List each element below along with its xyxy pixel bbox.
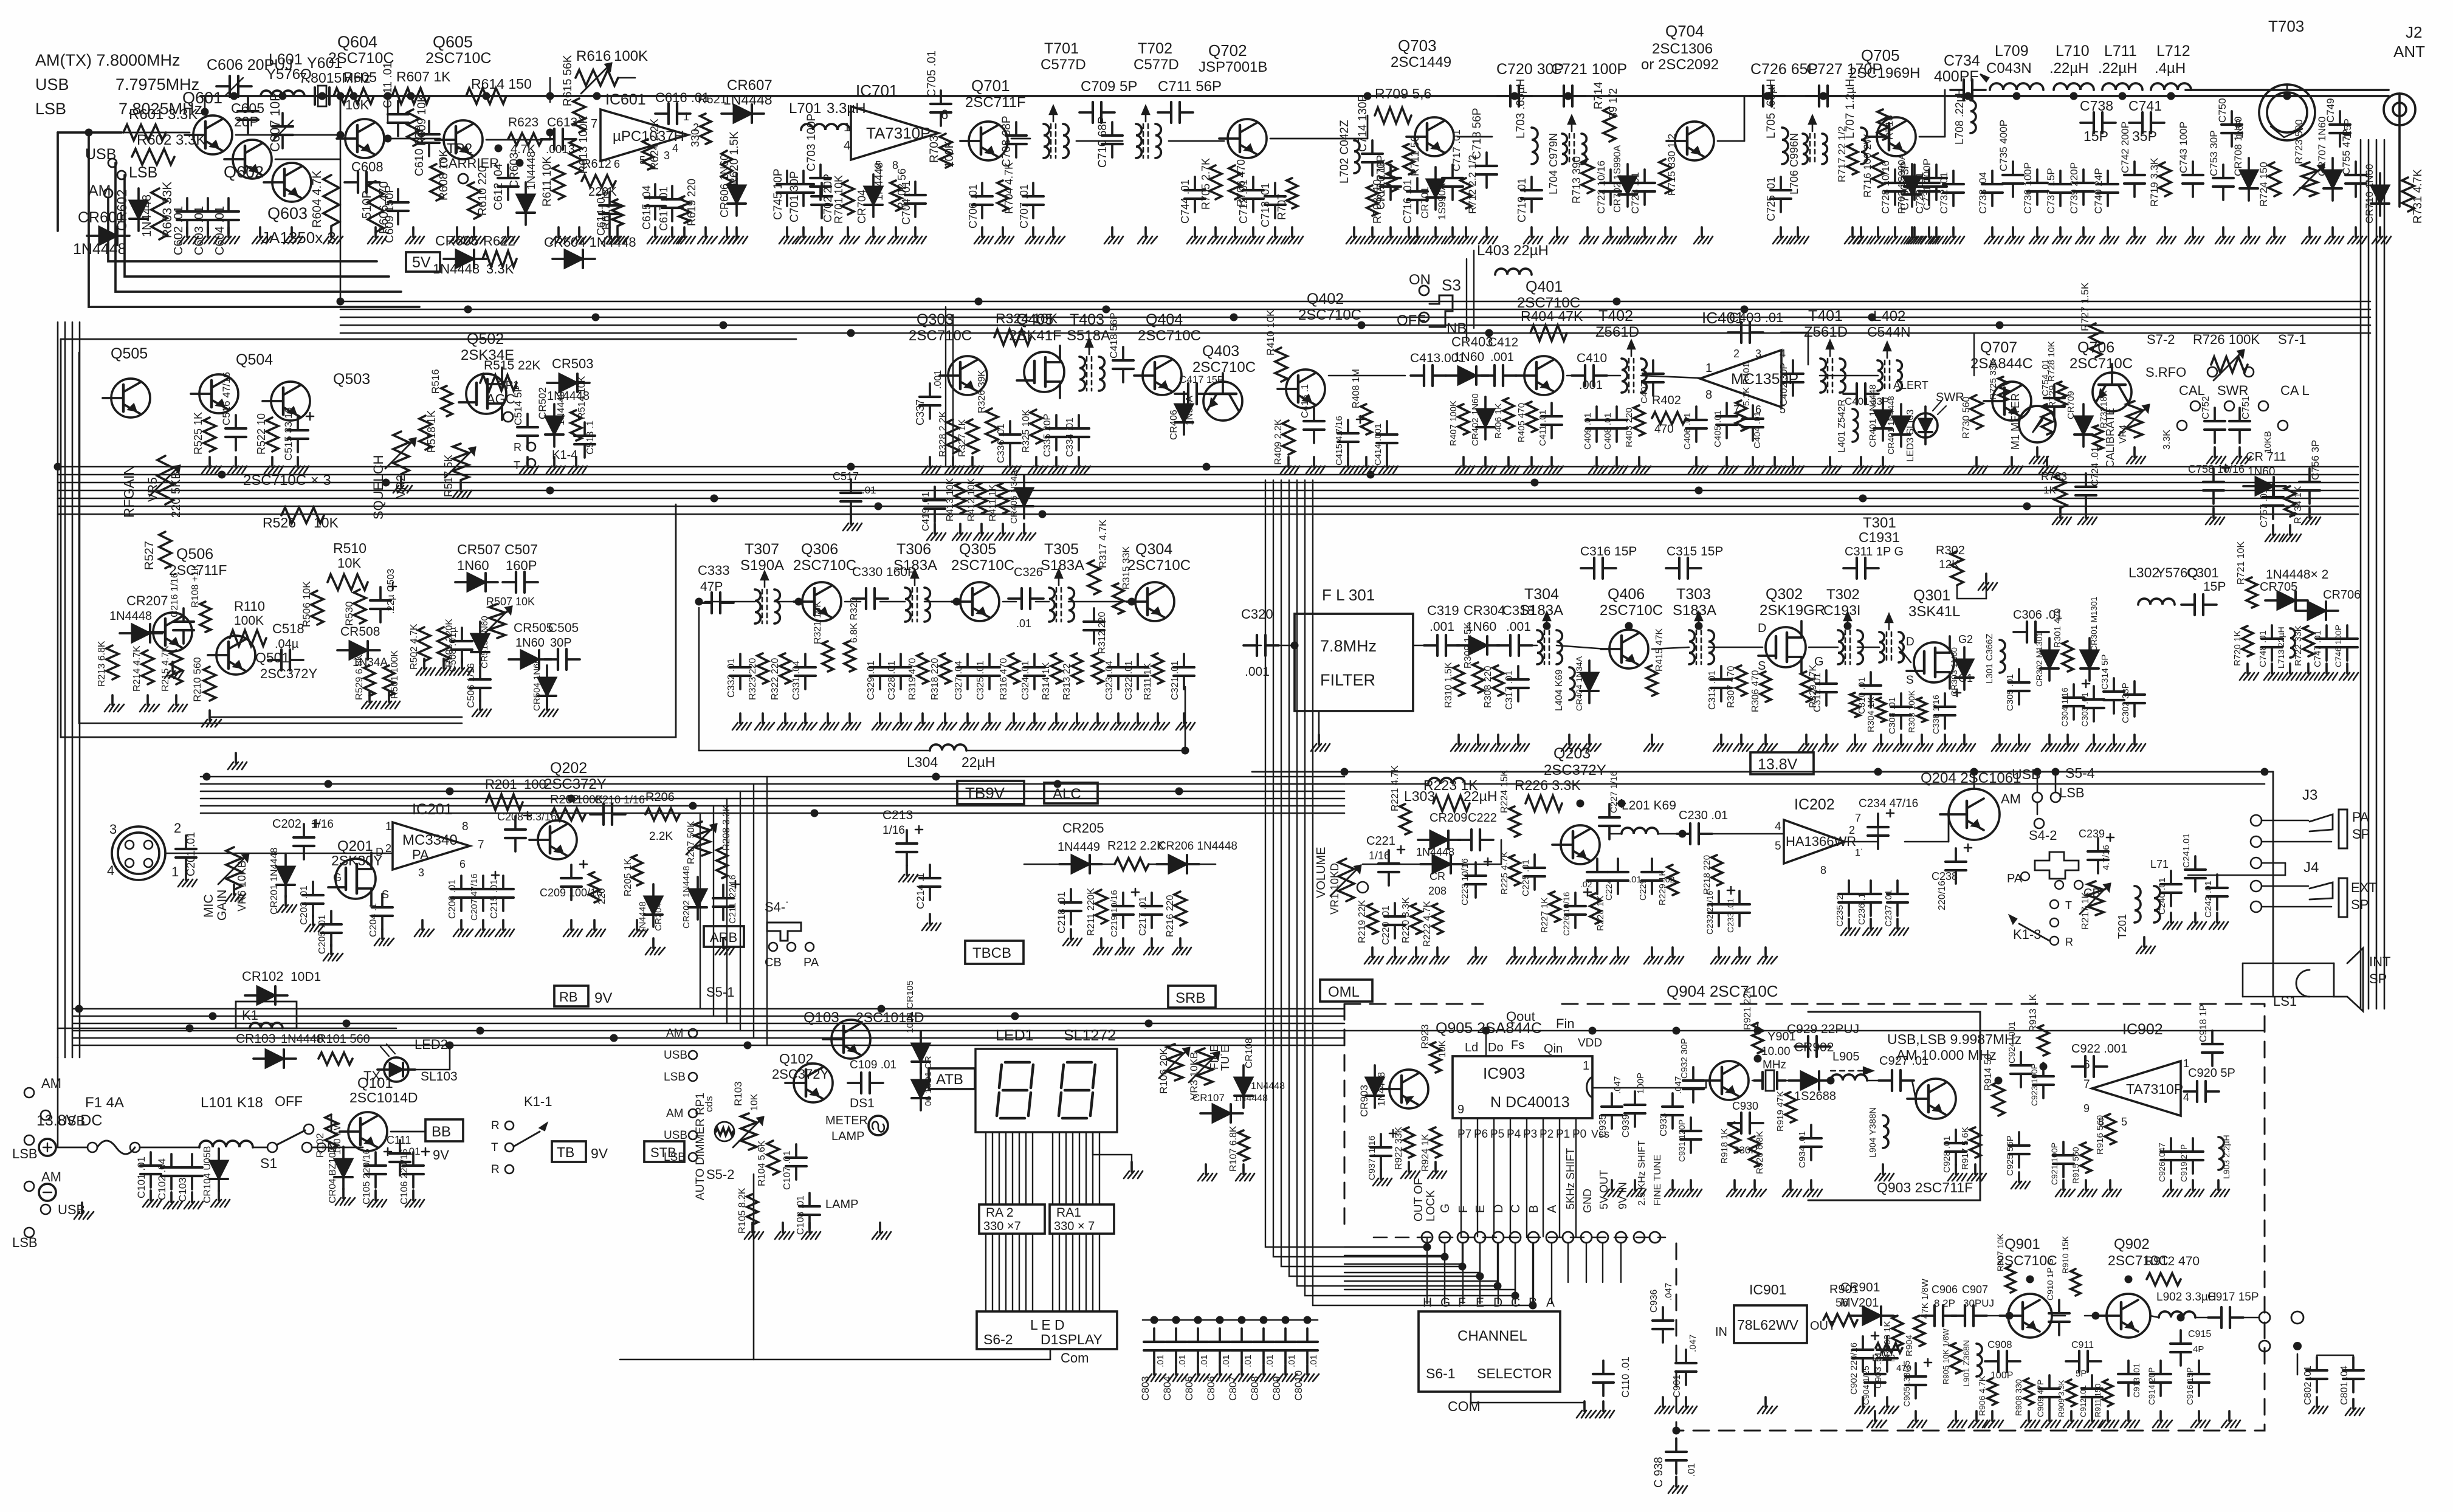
resistor R729: [2042, 404, 2052, 435]
resistor R905: [1950, 1343, 1961, 1373]
wire 13.8 to q204: [1973, 772, 1975, 789]
capacitor C710: [1111, 122, 1113, 136]
opamp IC201: [393, 822, 470, 870]
resistor R108: [200, 602, 211, 632]
capacitor C224: [1617, 859, 1619, 872]
capacitor C322: [1137, 654, 1139, 667]
ground if bank: [739, 713, 741, 723]
svg-text:R918 1K: R918 1K: [1719, 1129, 1730, 1164]
resistor R308: [1493, 665, 1504, 696]
svg-text:CR502: CR502: [537, 387, 548, 419]
resistor R305: [1850, 693, 1860, 717]
svg-text:C304 1/16: C304 1/16: [2060, 687, 2069, 727]
svg-text:Q103: Q103: [803, 1009, 839, 1026]
capacitor C414: [1386, 421, 1388, 435]
svg-text:8 2P: 8 2P: [1934, 1297, 1955, 1309]
capacitor C305: [2018, 669, 2020, 682]
wire selector buses: [1344, 1246, 1427, 1248]
bypass cap row C803-C810: [1143, 1319, 1318, 1321]
transformer T306: [905, 588, 910, 622]
ground meter bank: [2059, 508, 2062, 518]
capacitor C715 270P: [1389, 165, 1392, 178]
capacitor C743: [2192, 162, 2194, 175]
ground pll1 bank: [1380, 1169, 1382, 1179]
capacitor C919: [2192, 1138, 2194, 1152]
diode CR708: [2240, 170, 2258, 188]
transformer T201: [2135, 886, 2141, 923]
svg-text:39 1/2: 39 1/2: [1607, 88, 1619, 119]
inductor L708: [1970, 100, 1976, 133]
svg-text:2SK30Y: 2SK30Y: [331, 853, 382, 868]
pot VR2 squelch: [393, 431, 409, 474]
capacitor C748: [2271, 625, 2273, 639]
capacitor C908: [1985, 1360, 1998, 1363]
resistor R203: [589, 872, 600, 902]
capacitor C801: [2352, 1357, 2355, 1370]
diode CR209: [1430, 831, 1448, 849]
box LED DISPLAY S6-2: [977, 1311, 1117, 1349]
svg-text:R917 5.6K: R917 5.6K: [1960, 1127, 1970, 1170]
svg-text:C906: C906: [1932, 1283, 1958, 1296]
svg-text:9V IN: 9V IN: [1617, 1182, 1629, 1209]
svg-text:CR103: CR103: [236, 1032, 275, 1046]
svg-text:C607 10P: C607 10P: [267, 92, 283, 152]
svg-text:CR707 1N60: CR707 1N60: [2316, 117, 2328, 176]
svg-text:2SC710C: 2SC710C: [1600, 602, 1663, 619]
svg-text:C517: C517: [833, 470, 859, 483]
svg-text:Q102: Q102: [779, 1051, 813, 1067]
diode CR207: [132, 624, 150, 642]
svg-text:C748 .01: C748 .01: [2258, 630, 2268, 667]
resistor R514: [571, 410, 582, 441]
svg-text:C750: C750: [2217, 98, 2228, 123]
inductor L904: [1883, 1115, 1888, 1148]
capacitor C927: [1879, 1079, 1892, 1082]
svg-text:R223 1K: R223 1K: [1423, 777, 1478, 793]
resistor R716: [1872, 153, 1884, 187]
svg-text:1N4448× 2: 1N4448× 2: [2266, 568, 2328, 582]
capacitor C216: [182, 608, 185, 622]
ground nb bank: [1287, 457, 1290, 467]
capacitor C749: [2339, 111, 2341, 125]
resistor R622: [483, 251, 517, 267]
svg-text:Z561D: Z561D: [1595, 324, 1639, 340]
resistor R718: [1877, 109, 1888, 140]
svg-text:R518 1K: R518 1K: [425, 410, 438, 453]
channel selector wires: [1426, 1237, 1428, 1243]
diode CR710: [2371, 185, 2389, 204]
svg-text:C332 .01: C332 .01: [726, 658, 737, 698]
svg-text:DS1: DS1: [850, 1096, 875, 1110]
svg-text:TA7310P: TA7310P: [866, 124, 931, 142]
svg-text:C902 220/16: C902 220/16: [1849, 1342, 1859, 1395]
svg-text:JSP7001B: JSP7001B: [1199, 59, 1267, 75]
svg-text:L706 C996N: L706 C996N: [1788, 133, 1800, 194]
capacitor C929: [1795, 1045, 1808, 1048]
svg-text:R104 5.6K: R104 5.6K: [757, 1140, 767, 1186]
svg-text:C514 5P: C514 5P: [512, 385, 524, 425]
inductor L201: [1622, 828, 1658, 834]
filter FL301: [1295, 614, 1413, 711]
svg-text:C301: C301: [2187, 565, 2219, 580]
svg-text:cds: cds: [703, 1096, 715, 1112]
resistor R515: [480, 375, 517, 391]
svg-text:.0013: .0013: [546, 143, 575, 156]
capacitor C227: [1608, 804, 1611, 817]
diode CR705: [2277, 591, 2296, 610]
svg-text:.01: .01: [1265, 1355, 1275, 1367]
capacitor C729: [1928, 170, 1930, 183]
svg-text:R733: R733: [2041, 470, 2067, 483]
diode CR406: [1175, 404, 1193, 422]
svg-text:CR404 1N34A: CR404 1N34A: [1574, 656, 1584, 711]
svg-text:C325 .01: C325 .01: [975, 661, 986, 700]
svg-text:C518: C518: [272, 621, 304, 636]
svg-text:C311 1P G: C311 1P G: [1845, 545, 1904, 558]
resistor R620: [721, 151, 732, 185]
box TB 9V: [552, 1141, 586, 1162]
svg-text:K1-1: K1-1: [524, 1094, 552, 1109]
svg-text:CR207: CR207: [126, 593, 168, 608]
ground c801: [2316, 1397, 2318, 1407]
svg-text:R218 220: R218 220: [1702, 855, 1712, 895]
svg-text:C712 .01: C712 .01: [1237, 179, 1250, 224]
svg-text:2SC1449: 2SC1449: [1391, 54, 1451, 70]
channel selector pin row: [1374, 1237, 1665, 1239]
svg-text:3: 3: [664, 149, 670, 162]
wire j3 leads: [2262, 820, 2308, 822]
svg-text:Q904 2SC710C: Q904 2SC710C: [1667, 982, 1778, 1000]
pot VR3: [1197, 1048, 1213, 1085]
ground q703 bank: [1274, 227, 1276, 237]
svg-text:R912 470: R912 470: [2144, 1254, 2200, 1268]
svg-text:5KHz SHIFT: 5KHz SHIFT: [1564, 1148, 1577, 1209]
svg-text:2: 2: [1733, 348, 1739, 360]
svg-text:R909 3.3K: R909 3.3K: [2057, 1380, 2066, 1417]
capacitor C726: [1750, 95, 1763, 97]
resistor R913: [2038, 1025, 2049, 1056]
svg-text:S5-4: S5-4: [2065, 765, 2095, 781]
svg-text:C924 .001: C924 .001: [2007, 1022, 2017, 1064]
capacitor C709: [1079, 111, 1093, 114]
capacitor C728: [1894, 170, 1896, 183]
svg-text:10K: 10K: [345, 97, 369, 112]
resistor R526: [281, 507, 324, 523]
resistor R606: [368, 181, 384, 232]
svg-text:2SC710C × 3: 2SC710C × 3: [243, 472, 331, 489]
svg-text:10D1: 10D1: [291, 970, 321, 984]
svg-text:R913 1K: R913 1K: [2028, 994, 2038, 1032]
resistor R711: [1403, 144, 1414, 174]
svg-text:S183A: S183A: [893, 557, 937, 574]
ground q704 bank: [1530, 227, 1533, 237]
svg-text:Do: Do: [1488, 1041, 1504, 1054]
diode CR404: [1580, 673, 1598, 691]
svg-text:T304: T304: [1524, 586, 1559, 603]
transformer T302: [1838, 630, 1843, 664]
ground q404 bank: [934, 524, 936, 534]
svg-text:C411 .01: C411 .01: [1538, 410, 1548, 446]
svg-text:L703 .65µH: L703 .65µH: [1515, 78, 1527, 139]
capacitor C731: [1935, 165, 1938, 178]
svg-text:2.2K: 2.2K: [649, 830, 673, 843]
svg-text:IC201: IC201: [412, 801, 453, 818]
svg-text:C210 1/16: C210 1/16: [594, 794, 645, 806]
svg-text:AM(TX) 7.8000MHz: AM(TX) 7.8000MHz: [35, 51, 181, 69]
svg-text:AM: AM: [666, 1027, 684, 1040]
capacitor C410: [1572, 374, 1585, 377]
capacitor C209: [570, 865, 573, 878]
svg-text:C326: C326: [1014, 566, 1043, 579]
svg-text:C233 .01: C233 .01: [1725, 898, 1735, 933]
svg-text:C320: C320: [1241, 607, 1273, 622]
svg-text:S6-1: S6-1: [1426, 1366, 1456, 1381]
capacitor C405: [1725, 403, 1728, 416]
svg-text:L705 .65µH: L705 .65µH: [1765, 78, 1778, 139]
svg-text:Q707: Q707: [1980, 339, 2017, 356]
fet Q502: [466, 374, 506, 414]
svg-text:R412 10K: R412 10K: [966, 478, 977, 521]
svg-text:1N4448: 1N4448: [73, 241, 126, 258]
capacitor C219: [1122, 893, 1124, 906]
capacitor C730: [1913, 165, 1916, 178]
capacitor C203: [312, 882, 314, 895]
resistor R211: [1095, 890, 1107, 924]
svg-text:C738: C738: [2080, 98, 2113, 114]
resistor R734: [2285, 486, 2296, 517]
svg-text:C933: C933: [1659, 1113, 1669, 1136]
svg-text:.01: .01: [1016, 617, 1031, 630]
svg-text:C321 .01: C321 .01: [1170, 661, 1180, 700]
resistor R318: [940, 653, 951, 684]
resistor R326: [986, 408, 998, 442]
svg-text:C604 .01: C604 .01: [213, 206, 227, 255]
capacitor C109: [848, 1082, 861, 1084]
svg-text:220 5KB: 220 5KB: [170, 471, 183, 518]
svg-text:P4: P4: [1507, 1128, 1521, 1141]
svg-text:R402: R402: [1652, 394, 1681, 407]
svg-text:CR403: CR403: [1451, 334, 1493, 349]
svg-text:R411 1K: R411 1K: [988, 484, 998, 521]
svg-text:C751: C751: [2241, 396, 2251, 419]
svg-text:1N4448: 1N4448: [723, 92, 772, 108]
svg-text:CR401 1N4448: CR401 1N4448: [1868, 385, 1878, 447]
resistor R217: [2088, 881, 2104, 915]
capacitor C906: [1921, 1314, 1935, 1317]
svg-text:J2: J2: [2406, 23, 2422, 41]
svg-text:1N4448: 1N4448: [1377, 1072, 1387, 1106]
svg-text:C939: C939: [1621, 1115, 1631, 1138]
pot R616: [576, 70, 618, 86]
resistor array RA1: [1050, 1204, 1114, 1234]
svg-text:1: 1: [385, 820, 392, 833]
resistor R619: [679, 196, 690, 223]
svg-text:C735 400P: C735 400P: [1998, 120, 2009, 171]
pot R507: [489, 604, 505, 638]
svg-text:R73218K: R73218K: [2099, 390, 2109, 428]
capacitor C714 130P: [1371, 140, 1374, 154]
pll dashed box: [1344, 1004, 2265, 1431]
ra wires left: [985, 1234, 986, 1311]
resistor R704: [997, 180, 1008, 211]
svg-text:C752: C752: [2201, 396, 2211, 419]
junction dots oml: [75, 1005, 83, 1013]
svg-text:C305 .01: C305 .01: [2005, 674, 2015, 711]
svg-text:Q902: Q902: [2114, 1236, 2150, 1253]
transistor Q602: [233, 140, 272, 179]
capacitor C708: [1015, 122, 1017, 136]
svg-text:CR402 1N60: CR402 1N60: [1470, 393, 1481, 446]
capacitor C419: [934, 487, 936, 500]
transistor Q304: [1135, 582, 1174, 621]
svg-text:C234 47/16: C234 47/16: [1859, 797, 1918, 810]
capacitor C503: [379, 587, 382, 600]
svg-text:CR513 1N60: CR513 1N60: [480, 616, 490, 668]
resistor R901: [1823, 1314, 1857, 1326]
svg-text:CR04 BZ100: CR04 BZ100: [328, 1147, 338, 1203]
resistor R202: [551, 808, 585, 820]
svg-text:.047: .047: [1612, 1076, 1623, 1094]
svg-text:S518A: S518A: [1067, 328, 1110, 344]
capacitor C616: [655, 112, 669, 115]
fet Q302: [1766, 627, 1806, 667]
resistor R614: [466, 88, 506, 104]
svg-text:L711: L711: [2104, 43, 2137, 60]
svg-text:1N4448: 1N4448: [556, 391, 566, 425]
diode CR604: [565, 250, 583, 268]
resistor R410: [1275, 348, 1287, 382]
svg-text:1: 1: [683, 111, 689, 123]
transistor Q706: [2093, 364, 2131, 411]
resistor R404: [1530, 325, 1567, 341]
svg-text:13.8V DC: 13.8V DC: [36, 1112, 102, 1129]
inductor L705: [1782, 128, 1788, 164]
svg-text:R911 150: R911 150: [2093, 1384, 2102, 1417]
terminal minus: [39, 1184, 56, 1201]
svg-text:C226 10/16: C226 10/16: [1561, 892, 1571, 936]
capacitor C901: [1685, 1350, 1687, 1363]
svg-text:100P: 100P: [1636, 1073, 1646, 1094]
capacitor C329: [879, 654, 881, 667]
svg-text:C404 .01: C404 .01: [1752, 411, 1763, 448]
svg-text:Q201: Q201: [337, 838, 373, 854]
svg-text:C417: C417: [1179, 374, 1204, 385]
transistor Q501: [216, 636, 255, 675]
svg-text:R705 2.7K: R705 2.7K: [1200, 158, 1212, 210]
cds cell: [715, 1122, 734, 1141]
svg-text:CR604 1N4448: CR604 1N4448: [544, 235, 636, 250]
svg-text:CR406: CR406: [1169, 410, 1179, 440]
resistor R918: [1729, 1122, 1740, 1153]
svg-text:L601: L601: [269, 51, 303, 68]
ground c758 bank: [2212, 508, 2215, 518]
capacitor C323: [1117, 654, 1120, 667]
capacitor C506: [479, 666, 481, 679]
diode CR104: [210, 1161, 228, 1179]
capacitor C744: [1194, 177, 1196, 190]
diode CR201: [277, 867, 295, 885]
svg-text:C718 56P: C718 56P: [1471, 108, 1484, 159]
transistor Q504: [199, 374, 238, 413]
svg-text:C414 .001: C414 .001: [1373, 424, 1383, 466]
resistor R219: [1367, 904, 1378, 934]
resistor R501: [384, 665, 394, 696]
svg-text:R725 33K: R725 33K: [1988, 359, 1998, 400]
capacitor C404: [1752, 405, 1754, 419]
diode CR601: [99, 227, 117, 245]
svg-text:R710 1K: R710 1K: [1375, 159, 1387, 202]
svg-text:C916 15P: C916 15P: [2185, 1367, 2195, 1405]
diode CR507: [467, 573, 486, 591]
svg-text:10D1 CR105: 10D1 CR105: [905, 980, 915, 1033]
capacitor C408: [1615, 407, 1618, 420]
svg-text:M1 METER: M1 METER: [2009, 393, 2021, 450]
svg-text:C415 4.7/16: C415 4.7/16: [1334, 416, 1344, 466]
ground audio4 bank: [2143, 937, 2145, 947]
resistor R302: [1951, 551, 1963, 585]
capacitor C924: [2020, 1052, 2022, 1065]
junction dots q901: [2026, 1276, 2034, 1283]
svg-text:S: S: [1906, 674, 1914, 687]
capacitor C909: [2048, 1375, 2051, 1389]
capacitor C330: [853, 597, 866, 600]
capacitor C612: [507, 165, 509, 178]
capacitor C740: [2107, 171, 2109, 184]
svg-text:C719 .01: C719 .01: [1516, 178, 1528, 222]
svg-text:4: 4: [844, 139, 850, 153]
svg-text:C905 .33/35: C905 .33/35: [1902, 1361, 1911, 1407]
wire audio in: [165, 853, 233, 854]
resistor R601: [123, 125, 166, 140]
resistor R713: [1581, 159, 1594, 193]
svg-text:D: D: [1493, 1296, 1502, 1310]
svg-text:Q303: Q303: [917, 311, 954, 328]
svg-text:C717 .01: C717 .01: [1451, 129, 1462, 171]
resistor R518: [419, 416, 432, 450]
ground fine tune: [1205, 1164, 1207, 1174]
capacitor C235: [1848, 881, 1850, 894]
svg-text:C747 .01: C747 .01: [2313, 630, 2323, 667]
svg-text:S4-˙: S4-˙: [765, 899, 790, 915]
svg-text:13.8V: 13.8V: [1758, 756, 1798, 773]
svg-text:2SC710C: 2SC710C: [1138, 328, 1201, 344]
capacitor C723: [1643, 170, 1646, 183]
transistor Q204: [1949, 789, 2000, 840]
svg-text:7: 7: [1733, 404, 1739, 416]
svg-text:C102 .04: C102 .04: [156, 1158, 168, 1200]
svg-text:C223 10/16: C223 10/16: [1460, 858, 1470, 905]
box channel selector: [1419, 1311, 1560, 1392]
svg-text:S3: S3: [1442, 276, 1461, 294]
svg-text:C232 22/16: C232 22/16: [1705, 890, 1715, 935]
svg-text:OFF: OFF: [275, 1093, 303, 1109]
capacitor C718: [1485, 153, 1488, 166]
svg-text:9V: 9V: [433, 1147, 449, 1163]
resistor R714: [1603, 108, 1615, 142]
svg-text:C238: C238: [1932, 870, 1958, 882]
diode CR301: [2080, 650, 2099, 668]
capacitor C938: [1675, 1438, 1677, 1452]
transistor Q303: [948, 356, 987, 395]
svg-text:C407: C407: [1639, 382, 1650, 404]
svg-text:C308 .01: C308 .01: [1887, 697, 1897, 734]
display wires left: [985, 1132, 986, 1204]
resistor R205: [631, 855, 642, 885]
transistor Q406: [1609, 630, 1648, 668]
svg-text:S7-1: S7-1: [2278, 332, 2306, 347]
svg-text:VDD: VDD: [1578, 1037, 1602, 1050]
svg-text:47K 1/8W: 47K 1/8W: [1920, 1278, 1930, 1319]
